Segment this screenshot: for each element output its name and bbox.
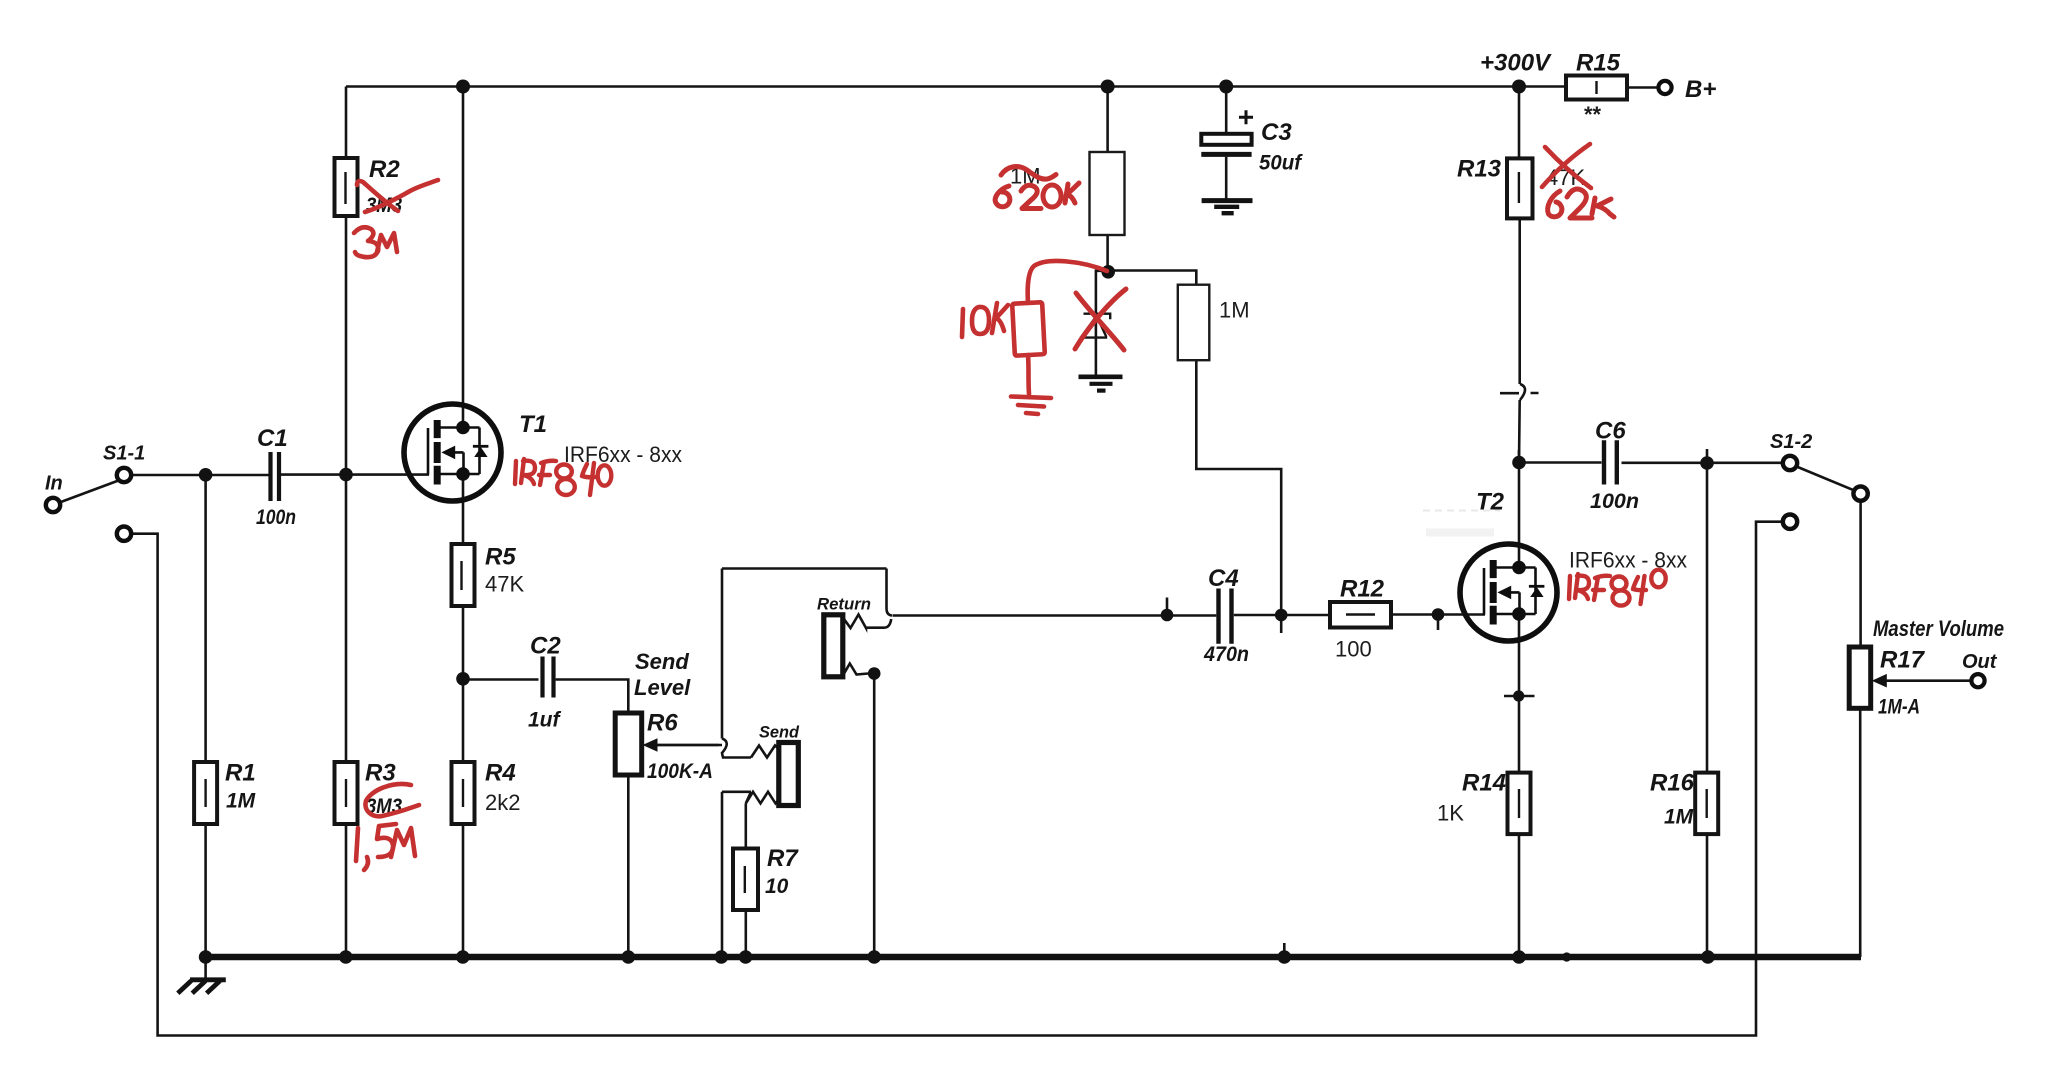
svg-text:B+: B+ <box>1685 76 1716 103</box>
resistor R12 (horizontal) <box>1330 602 1391 628</box>
send jack tip contact zigzag <box>751 746 779 758</box>
svg-text:R4: R4 <box>485 760 516 787</box>
svg-text:R15: R15 <box>1576 50 1621 77</box>
svg-text:1M: 1M <box>1664 806 1694 829</box>
potentiometer R6 wiper arrowhead <box>643 738 658 752</box>
chassis ground symbol bottom-left <box>178 980 226 993</box>
junction node: C2 tap <box>456 672 470 686</box>
transistor T1 (MOSFET IRF840) <box>404 404 501 501</box>
svg-text:R3: R3 <box>365 760 396 787</box>
svg-text:Level: Level <box>634 675 691 700</box>
red handwriting 62K <box>1548 191 1562 217</box>
break mark on R13 line <box>1500 384 1539 400</box>
svg-text:2k2: 2k2 <box>485 790 520 815</box>
red handwriting 1,5M at R3 <box>356 828 358 861</box>
junction node: C6 right R16 <box>1700 456 1714 470</box>
junction node: C4 right <box>1275 609 1288 622</box>
node stub below R12 right junction <box>1437 615 1440 631</box>
terminal B+ <box>1658 81 1671 94</box>
potentiometer R17 body <box>1849 647 1871 708</box>
wire C2 node to C2 left plate <box>463 678 539 681</box>
lead R15 to B+ <box>1627 86 1658 89</box>
resistor R5 <box>452 544 475 606</box>
node stub above C4 left junction <box>1166 598 1169 616</box>
junction node: rail +300V R13 <box>1512 80 1526 94</box>
jack Return body <box>824 615 843 677</box>
svg-text:C6: C6 <box>1595 418 1626 445</box>
svg-text:In: In <box>45 473 63 495</box>
wire S1-2 throw to R17 <box>1859 501 1862 647</box>
wire send/return loop top link <box>722 569 887 739</box>
svg-text:470n: 470n <box>1203 643 1249 666</box>
svg-text:1K: 1K <box>1437 801 1464 826</box>
junction node: C6 left <box>1512 456 1526 470</box>
red hand annotations <box>354 144 1666 870</box>
svg-text:IRF6xx - 8xx: IRF6xx - 8xx <box>564 442 682 467</box>
svg-text:R2: R2 <box>369 156 400 183</box>
wire 1M grid-leak branch <box>1109 271 1281 616</box>
svg-text:R12: R12 <box>1340 576 1385 603</box>
svg-text:R1: R1 <box>225 760 256 787</box>
switch S1-1 input terminal In <box>46 498 60 512</box>
svg-text:50uf: 50uf <box>1259 152 1303 175</box>
ground rail (thick) <box>202 954 1861 961</box>
svg-text:R6: R6 <box>647 710 678 737</box>
wire C3 branch from rail <box>1225 87 1228 200</box>
transistor T2 (MOSFET IRF840) <box>1460 544 1557 641</box>
svg-text:1M-A: 1M-A <box>1878 696 1920 719</box>
wire return jack drop <box>887 569 893 616</box>
wire C6 left <box>1519 461 1602 464</box>
resistor R3 <box>335 762 358 824</box>
red wire 10K resistor to ground <box>1028 355 1029 394</box>
return jack shunt contact <box>844 664 869 675</box>
svg-text:47K: 47K <box>485 572 524 597</box>
svg-text:T1: T1 <box>519 411 547 438</box>
red X over zener <box>1075 289 1126 349</box>
switch S1-1 pole terminal <box>117 468 131 482</box>
svg-text:C2: C2 <box>530 633 561 660</box>
capacitor C4 <box>1219 589 1232 644</box>
svg-text:100: 100 <box>1335 637 1372 662</box>
wire R3 branch <box>345 475 348 957</box>
svg-text:1uf: 1uf <box>528 709 562 732</box>
red strike over R3 value <box>365 784 419 816</box>
red handwriting 3M at R2 <box>354 227 378 257</box>
svg-text:S1-1: S1-1 <box>103 443 145 465</box>
wire R13 to C6 node to T2 drain <box>1518 400 1521 568</box>
node stub above rail at x=1284 <box>1283 943 1286 953</box>
wire R7 bottom to ground rail <box>744 910 747 957</box>
switch S1-1 lower throw terminal <box>117 527 131 541</box>
node stub above C6 left junction <box>1518 450 1521 463</box>
ground symbol chassis lead <box>204 957 207 979</box>
svg-text:+300V: +300V <box>1480 50 1552 77</box>
junction nodes on ground rail <box>199 950 213 964</box>
capacitor C3 electrolytic plates <box>1201 110 1253 154</box>
junction node: T2 gate <box>1432 608 1445 621</box>
junction node: return shunt <box>868 667 881 680</box>
junction node: C4 left <box>1161 609 1174 622</box>
red strike over 1M value <box>1001 167 1056 180</box>
capacitor C6 <box>1604 440 1617 484</box>
svg-text:T2: T2 <box>1476 489 1505 516</box>
red X over R13 value <box>1542 144 1590 187</box>
red handwriting IRF840 at T1 <box>515 459 611 495</box>
resistor R1 <box>194 762 217 824</box>
junction node on rail: top rail T1 drain <box>456 80 470 94</box>
jack Send body <box>779 743 799 806</box>
red handwriting 620K <box>995 186 1010 207</box>
wire R6 wiper to send jack tip <box>655 744 719 747</box>
svg-text:IRF6xx - 8xx: IRF6xx - 8xx <box>1569 548 1687 573</box>
resistor R7 <box>733 849 758 911</box>
svg-text:C1: C1 <box>257 425 288 452</box>
svg-text:C3: C3 <box>1261 119 1292 146</box>
send jack switch contact to ground <box>722 792 751 957</box>
wire zener branch <box>1096 271 1108 375</box>
wire R6 wiper arrow line <box>652 744 722 747</box>
red strike over R2 value <box>357 181 398 211</box>
potentiometer R6 body <box>615 713 642 775</box>
wire R1 branch <box>204 475 207 957</box>
node stub above R16 junction <box>1706 449 1709 463</box>
wire T2 source to R14 to ground rail <box>1504 614 1535 957</box>
junction node: T2 source mid <box>1513 690 1524 701</box>
wire input node to T1 gate <box>131 473 429 476</box>
svg-text:R13: R13 <box>1457 156 1502 183</box>
wire R12 to T2 gate <box>1391 613 1485 616</box>
resistor R15 (horizontal) <box>1566 76 1627 100</box>
svg-text:R14: R14 <box>1462 770 1506 797</box>
red handwriting 10K <box>962 309 963 337</box>
terminal Out <box>1971 674 1984 687</box>
svg-text:S1-2: S1-2 <box>1770 431 1812 453</box>
svg-text:10: 10 <box>765 875 789 898</box>
resistor 620K (plain style) <box>1090 152 1125 235</box>
resistor 1M grid (plain style) <box>1178 285 1210 361</box>
junction node: input R2/R3 <box>339 468 353 482</box>
wire R2 branch from rail to input node <box>345 87 348 475</box>
wire R17 bottom to ground rail <box>1859 708 1862 957</box>
svg-text:1M: 1M <box>226 790 256 813</box>
wire C4 right to R12 <box>1234 614 1330 617</box>
junction node: 620K zener 1M <box>1101 265 1115 279</box>
wire return shunt to ground rail <box>873 674 876 958</box>
svg-text:100n: 100n <box>256 506 296 529</box>
erased label smudge near T2 <box>1423 511 1500 533</box>
switch S1-1 arm <box>60 481 119 503</box>
node stub below C4 right junction <box>1280 615 1283 633</box>
capacitor C2 <box>543 657 554 698</box>
wire C6 right to S1-2 pole <box>1622 461 1784 464</box>
junction node: input R1 <box>199 468 213 482</box>
svg-text:Send: Send <box>759 723 800 742</box>
resistor R2 <box>335 158 358 216</box>
wire S1-2 lower throw bypass run <box>131 522 1783 1036</box>
wire hop hook at send tip <box>722 739 751 758</box>
switch S1-2 lower throw terminal <box>1783 515 1797 529</box>
svg-text:Out: Out <box>1962 651 1998 673</box>
potentiometer R17 wiper arrowhead <box>1872 674 1887 688</box>
wire R16 branch <box>1706 463 1709 957</box>
wire R13 branch from rail <box>1518 87 1521 385</box>
resistor R4 <box>452 762 475 824</box>
wire T1 source to R5 to C2 node to R4 to ground <box>462 474 465 957</box>
earth ground symbol under C3 <box>1202 201 1253 214</box>
svg-text:R16: R16 <box>1650 770 1695 797</box>
svg-text:R7: R7 <box>767 845 799 872</box>
svg-text:Master Volume: Master Volume <box>1873 616 2004 641</box>
red ground symbol <box>1011 397 1051 415</box>
wire send ring to R7 <box>744 803 747 848</box>
wire top supply rail <box>346 85 1566 88</box>
return jack tip contact zigzag <box>843 615 892 629</box>
resistor R16 <box>1695 773 1718 835</box>
red sketched resistor 10K <box>1012 302 1045 355</box>
svg-text:C4: C4 <box>1208 565 1239 592</box>
red wire junction to 10K resistor <box>1028 261 1107 303</box>
zener diode (crossed out) <box>1080 314 1110 338</box>
wire 620K resistor branch from rail <box>1106 87 1109 273</box>
wire R6 bottom to ground rail <box>627 775 630 957</box>
svg-text:Send: Send <box>635 649 689 674</box>
junction node: rail 620K <box>1101 80 1115 94</box>
junction node: rail C3 <box>1219 80 1233 94</box>
wire return tip to C4 <box>893 614 1216 617</box>
switch S1-2 upper throw terminal <box>1853 486 1867 500</box>
svg-text:**: ** <box>1584 102 1602 127</box>
svg-text:R5: R5 <box>485 544 516 571</box>
red handwriting IRF840 at T2 <box>1569 570 1666 606</box>
switch S1-2 pole terminal <box>1783 456 1797 470</box>
svg-text:100K-A: 100K-A <box>647 760 713 783</box>
resistor R13 <box>1507 158 1533 218</box>
send jack ring contact zigzag <box>746 792 779 804</box>
wire T1 drain from rail <box>462 87 465 428</box>
switch S1-2 arm <box>1797 467 1855 491</box>
svg-text:1M: 1M <box>1219 298 1250 323</box>
wire R17 wiper to Out terminal <box>1884 679 1972 682</box>
svg-text:R17: R17 <box>1880 647 1926 674</box>
svg-text:100n: 100n <box>1590 490 1639 513</box>
svg-text:Return: Return <box>817 595 871 614</box>
earth ground symbol under zener <box>1079 377 1123 391</box>
capacitor C1 <box>271 452 280 501</box>
wire C2 right plate to R6 top <box>556 680 629 714</box>
resistor R14 <box>1508 773 1531 835</box>
